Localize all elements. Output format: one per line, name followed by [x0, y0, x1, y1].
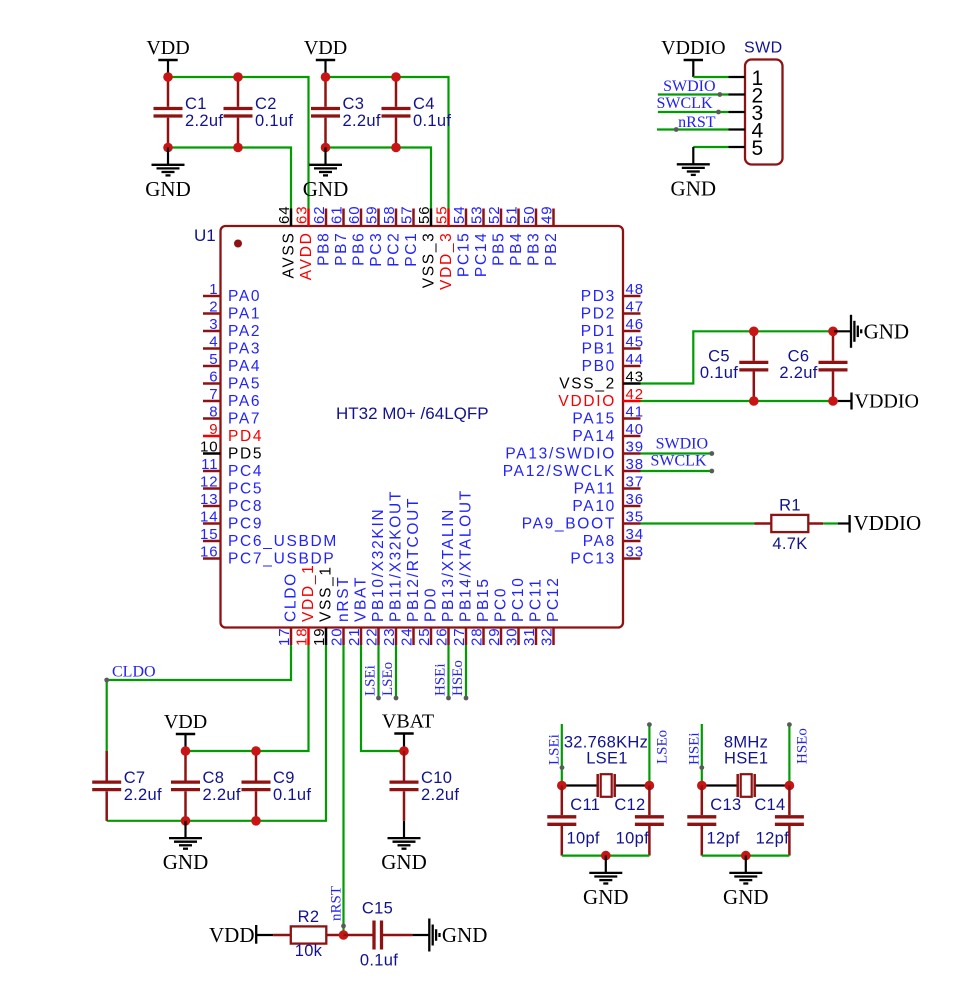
pin 17 CLDO (bottom): [276, 572, 300, 646]
pin 58 PC2 (top): [381, 206, 403, 267]
node net anchor CLDO: [104, 678, 109, 683]
pin 52 PB5 (top): [486, 206, 508, 266]
svg-text:PC15: PC15: [456, 232, 473, 278]
pin 55 VDD_3 (top): [434, 206, 456, 290]
pin 7 PA6 (left): [203, 386, 261, 410]
svg-text:57: 57: [399, 206, 416, 225]
svg-text:10k: 10k: [295, 942, 323, 960]
svg-text:61: 61: [329, 206, 346, 225]
svg-text:37: 37: [626, 474, 645, 491]
svg-text:10: 10: [200, 439, 219, 456]
power flag VDD (bottom): [164, 711, 207, 751]
svg-text:0.1uf: 0.1uf: [360, 952, 398, 970]
svg-text:PC0: PC0: [493, 587, 510, 622]
svg-text:CLDO: CLDO: [112, 663, 156, 680]
svg-text:C9: C9: [273, 769, 295, 787]
pin 27 PB14/XTALOUT (bottom): [451, 489, 475, 646]
node nRST junction: [339, 930, 349, 940]
capacitor C1: [154, 77, 224, 148]
node net anchor HSEi (crystal): [699, 765, 704, 770]
svg-text:19: 19: [311, 628, 328, 647]
svg-text:C4: C4: [413, 95, 435, 113]
node GND-C2: [233, 143, 243, 153]
svg-text:VDD_3: VDD_3: [438, 232, 455, 290]
capacitor C14: [775, 786, 804, 856]
capacitor C10: [390, 751, 460, 821]
svg-text:11: 11: [201, 456, 218, 473]
capacitor C8: [171, 751, 241, 821]
svg-text:PB12/RTCOUT: PB12/RTCOUT: [405, 497, 422, 622]
svg-text:4.7K: 4.7K: [772, 535, 807, 553]
pin 44 PB0 (right): [582, 351, 644, 375]
svg-text:PB0: PB0: [582, 358, 616, 375]
svg-text:PC8: PC8: [228, 498, 263, 515]
svg-text:41: 41: [626, 404, 645, 421]
svg-text:5: 5: [752, 137, 764, 160]
pin 63 AVDD (top): [294, 206, 316, 281]
svg-text:LSEo: LSEo: [380, 662, 396, 696]
svg-text:51: 51: [504, 206, 521, 225]
svg-text:GND: GND: [442, 923, 488, 947]
svg-text:62: 62: [311, 206, 328, 225]
ground flag GND (right): [834, 315, 909, 348]
pin 22 PB10/X32KIN (bottom): [364, 508, 388, 646]
svg-text:20: 20: [329, 628, 346, 647]
svg-text:21: 21: [346, 628, 363, 647]
capacitor C5: [739, 331, 768, 401]
svg-text:PA9_BOOT: PA9_BOOT: [522, 516, 616, 533]
svg-text:PA14: PA14: [572, 428, 616, 445]
pin 20 nRST (bottom): [329, 576, 353, 646]
resistor R2 10k: [273, 934, 343, 937]
capacitor C9: [242, 751, 312, 821]
svg-text:R1: R1: [779, 497, 801, 515]
node LSE gnd: [601, 851, 611, 861]
svg-text:3: 3: [209, 316, 218, 333]
pin 3 PA2 (left): [203, 316, 261, 340]
node net anchor SWDIO: [717, 92, 722, 97]
svg-text:C1: C1: [185, 95, 207, 113]
svg-text:PC12: PC12: [545, 576, 562, 622]
power flag VDDIO (right rail): [838, 391, 919, 413]
svg-text:24: 24: [399, 628, 416, 647]
svg-text:PA1: PA1: [228, 306, 261, 323]
power flag VDDIO (R1): [838, 511, 921, 535]
svg-text:PB14/XTALOUT: PB14/XTALOUT: [458, 489, 475, 622]
pin 53 PC14 (top): [469, 206, 491, 278]
svg-text:PB4: PB4: [508, 232, 525, 266]
svg-text:45: 45: [626, 334, 645, 351]
svg-text:AVSS: AVSS: [281, 232, 298, 279]
svg-text:HSEo: HSEo: [795, 728, 811, 764]
node C5 top: [749, 327, 759, 337]
svg-text:PB8: PB8: [316, 232, 333, 266]
svg-text:34: 34: [626, 526, 645, 543]
pin 4 PA3 (left): [203, 334, 261, 358]
svg-text:GND: GND: [381, 850, 427, 874]
wire R1 to VDDIO flag: [823, 522, 838, 524]
pin 36 PA10 (right): [572, 491, 644, 515]
svg-text:PD0: PD0: [423, 587, 440, 622]
wire pin 35 PA9_BOOT to R1: [641, 522, 755, 524]
svg-text:PB5: PB5: [491, 232, 508, 266]
node net anchor LSEo (crystal): [647, 722, 652, 727]
pin 2 PA1 (left): [203, 299, 261, 323]
svg-text:GND: GND: [864, 320, 910, 344]
svg-text:PC11: PC11: [528, 578, 545, 622]
node VDD-C8: [181, 746, 191, 756]
node C5 bottom: [749, 396, 759, 406]
svg-text:17: 17: [276, 628, 293, 647]
pin 16 PC7_USBDP (left): [200, 544, 335, 568]
node net anchor LSEi (crystal): [560, 765, 565, 770]
pin 35 PA9_BOOT (right): [522, 509, 644, 533]
node net anchor nRST 2: [341, 924, 346, 929]
svg-text:nRST: nRST: [335, 576, 352, 622]
svg-text:56: 56: [416, 206, 433, 225]
svg-text:5: 5: [209, 351, 218, 368]
svg-text:2.2uf: 2.2uf: [124, 786, 162, 804]
node net anchor nRST: [674, 127, 679, 132]
pin 13 PC8 (left): [200, 491, 263, 515]
svg-text:PB1: PB1: [582, 341, 616, 358]
svg-text:25: 25: [416, 628, 433, 647]
pin 61 PB7 (top): [329, 206, 351, 266]
node VDD-C9: [251, 746, 261, 756]
svg-text:VDDIO: VDDIO: [855, 391, 919, 413]
pin 21 VBAT (bottom): [346, 576, 370, 646]
svg-text:VDDIO: VDDIO: [661, 37, 725, 59]
capacitor C2: [224, 77, 294, 148]
wire HSEi to C13: [701, 724, 703, 786]
svg-text:15: 15: [200, 526, 219, 543]
svg-text:C7: C7: [124, 769, 146, 787]
wire nRST from pin 20 to R2 node: [342, 645, 344, 935]
svg-text:PA8: PA8: [583, 533, 616, 550]
node VDD-C1: [163, 72, 173, 82]
svg-text:PC10: PC10: [510, 576, 527, 622]
svg-text:C15: C15: [362, 900, 393, 918]
svg-text:PC2: PC2: [386, 232, 403, 267]
pin 9 PD4 (left): [203, 421, 263, 445]
svg-text:SWDIO: SWDIO: [656, 436, 708, 453]
node HSE right: [785, 781, 795, 791]
pin 59 PC3 (top): [364, 206, 386, 267]
wire HSEo from IC pin: [465, 645, 467, 698]
svg-text:10pf: 10pf: [616, 829, 649, 847]
node VDD-C3: [321, 72, 331, 82]
pin 12 PC5 (left): [200, 474, 263, 498]
svg-text:0.1uf: 0.1uf: [700, 364, 738, 382]
svg-text:46: 46: [626, 316, 645, 333]
pin 19 VSS_1 (bottom): [311, 565, 335, 646]
svg-text:59: 59: [364, 206, 381, 225]
wire LSEi from IC pin: [377, 645, 379, 698]
svg-text:2.2uf: 2.2uf: [185, 112, 223, 130]
pin 56 VSS_3 (top): [416, 206, 438, 289]
svg-text:12pf: 12pf: [756, 829, 789, 847]
svg-text:18: 18: [294, 628, 311, 647]
pin 57 PC1 (top): [399, 206, 421, 267]
power flag VDD (block 2): [304, 37, 347, 77]
svg-text:55: 55: [434, 206, 451, 225]
ground GND (HSE): [723, 856, 769, 909]
svg-text:53: 53: [469, 206, 486, 225]
power flag VDDIO (SWD): [661, 37, 725, 77]
svg-text:C8: C8: [203, 769, 225, 787]
pin 37 PA11 (right): [574, 474, 644, 498]
svg-text:6: 6: [209, 369, 218, 386]
svg-text:VSS_1: VSS_1: [318, 565, 335, 622]
pin 11 PC4 (left): [201, 456, 263, 480]
pin 5 PA4 (left): [203, 351, 261, 375]
svg-text:50: 50: [521, 206, 538, 225]
svg-text:LSEi: LSEi: [547, 734, 563, 765]
wire LSEo from IC pin: [395, 645, 397, 698]
svg-text:PB6: PB6: [351, 232, 368, 266]
pin 32 PC12 (bottom): [539, 576, 563, 646]
svg-text:PB15: PB15: [475, 577, 492, 622]
capacitor C6: [819, 331, 848, 401]
pin 39 PA13/SWDIO (right): [505, 439, 644, 463]
capacitor C11: [547, 786, 576, 856]
pin 10 PD5 (left): [200, 439, 263, 463]
svg-text:2.2uf: 2.2uf: [421, 786, 459, 804]
pin 46 PD1 (right): [581, 316, 644, 340]
wire SWD pin3 SWCLK: [658, 111, 729, 113]
svg-text:60: 60: [346, 206, 363, 225]
svg-text:7: 7: [209, 386, 218, 403]
svg-text:10pf: 10pf: [567, 829, 600, 847]
node LSE right: [645, 781, 655, 791]
svg-text:R2: R2: [298, 908, 320, 926]
svg-text:GND: GND: [303, 177, 349, 201]
svg-text:PA10: PA10: [572, 498, 616, 515]
node GND-C8: [181, 816, 191, 826]
svg-text:27: 27: [451, 628, 468, 647]
node GND-C1: [163, 143, 173, 153]
svg-text:PC1: PC1: [403, 232, 420, 267]
svg-text:HSEi: HSEi: [433, 663, 449, 696]
svg-text:GND: GND: [723, 885, 769, 909]
svg-text:GND: GND: [583, 885, 629, 909]
svg-text:22: 22: [364, 628, 381, 647]
svg-text:PA15: PA15: [572, 411, 616, 428]
node net anchor SWDIO 2: [709, 451, 714, 456]
svg-text:23: 23: [381, 628, 398, 647]
node HSE gnd: [741, 851, 751, 861]
node LSE left: [557, 781, 567, 791]
wire GND rail block2 to pin 56: [326, 148, 432, 210]
pin 8 PA7 (left): [203, 404, 261, 428]
svg-text:PD4: PD4: [228, 428, 263, 445]
pin 47 PD2 (right): [581, 299, 644, 323]
svg-text:PC6_USBDM: PC6_USBDM: [228, 533, 338, 550]
wire VDD rail block2 to pin 55: [326, 77, 449, 209]
svg-text:8: 8: [209, 404, 218, 421]
svg-text:PC3: PC3: [368, 232, 385, 267]
pin 25 PD0 (bottom): [416, 587, 440, 646]
svg-text:PA3: PA3: [228, 341, 261, 358]
svg-text:PC4: PC4: [228, 463, 263, 480]
svg-text:40: 40: [626, 421, 645, 438]
ground GND (C10): [381, 821, 427, 874]
wire SWCLK from pin 38: [641, 470, 712, 472]
power flag VDD (R2 row): [209, 923, 273, 947]
svg-text:VDD_1: VDD_1: [300, 564, 317, 622]
power flag VBAT: [382, 711, 434, 751]
pin 1 PA0 (left): [203, 281, 261, 305]
node net anchor SWCLK: [716, 110, 721, 115]
svg-text:C3: C3: [343, 95, 365, 113]
svg-text:HSEi: HSEi: [687, 732, 703, 765]
svg-text:VDD: VDD: [209, 923, 255, 947]
svg-text:VDD: VDD: [146, 37, 189, 59]
svg-text:36: 36: [626, 491, 645, 508]
pin 64 AVSS (top): [276, 206, 298, 279]
svg-text:GND: GND: [671, 176, 717, 200]
svg-text:U1: U1: [194, 226, 216, 245]
capacitor C4: [382, 77, 452, 148]
wire HSEi from IC pin: [447, 645, 449, 698]
wire R2 node to C15: [344, 934, 374, 937]
svg-text:16: 16: [200, 544, 219, 561]
wire VDD rail block1 to pin 63: [168, 77, 309, 209]
pin 49 PB2 (top): [539, 206, 561, 266]
svg-text:LSEi: LSEi: [363, 665, 379, 696]
node net anchor HSEo (crystal): [787, 722, 792, 727]
svg-text:PB3: PB3: [526, 232, 543, 266]
pin 62 PB8 (top): [311, 206, 333, 266]
wire SWD pin5 to GND: [693, 146, 728, 148]
pin 29 PC0 (bottom): [486, 587, 510, 646]
node GND-C9: [251, 816, 261, 826]
node HSE left: [697, 781, 707, 791]
svg-text:C10: C10: [421, 769, 452, 787]
svg-text:0.1uf: 0.1uf: [255, 112, 293, 130]
svg-text:4: 4: [209, 334, 218, 351]
node VBAT-C10: [399, 746, 409, 756]
svg-text:47: 47: [626, 299, 645, 316]
svg-text:PC7_USBDP: PC7_USBDP: [228, 551, 335, 568]
svg-text:PD3: PD3: [581, 288, 616, 305]
capacitor C13: [687, 786, 716, 856]
capacitor C3: [311, 77, 381, 148]
capacitor C12: [635, 786, 664, 856]
svg-text:28: 28: [469, 628, 486, 647]
wire SWD pin4 nRST: [657, 128, 729, 130]
svg-text:VDDIO: VDDIO: [854, 511, 922, 535]
svg-text:C5: C5: [708, 348, 730, 366]
connector SWD: [729, 40, 783, 165]
pin 54 PC15 (top): [451, 206, 473, 278]
svg-text:C11: C11: [570, 796, 600, 814]
wire pin 19 VSS_1 to GND rail: [107, 645, 326, 821]
wire LSEi to C11: [561, 724, 563, 786]
node net anchor LSEo (IC): [394, 696, 399, 701]
pin 50 PB3 (top): [521, 206, 543, 266]
wire pin 42 VDDIO rail: [641, 400, 839, 402]
svg-text:VSS_3: VSS_3: [421, 232, 438, 289]
pin 40 PA14 (right): [572, 421, 644, 445]
ground flag GND (C15): [412, 919, 487, 952]
wire CLDO from pin 17 to C7: [107, 645, 291, 751]
svg-text:PA12/SWCLK: PA12/SWCLK: [503, 463, 616, 480]
svg-text:SWD: SWD: [744, 40, 783, 57]
svg-text:PD5: PD5: [228, 446, 263, 463]
wire GND rail block1 to pin 64: [168, 148, 291, 210]
svg-text:LSEo: LSEo: [655, 730, 671, 764]
svg-text:PB7: PB7: [333, 232, 350, 266]
capacitor C7: [92, 751, 162, 821]
pin 45 PB1 (right): [582, 334, 644, 358]
svg-text:PA6: PA6: [228, 393, 261, 410]
pin 38 PA12/SWCLK (right): [503, 456, 644, 480]
svg-text:33: 33: [626, 544, 645, 561]
svg-text:2.2uf: 2.2uf: [343, 112, 381, 130]
svg-text:29: 29: [486, 628, 503, 647]
svg-text:PA13/SWDIO: PA13/SWDIO: [505, 446, 616, 463]
svg-text:PB10/X32KIN: PB10/X32KIN: [370, 508, 387, 622]
svg-text:PB13/XTALIN: PB13/XTALIN: [440, 508, 457, 622]
svg-text:PB11/X32KOUT: PB11/X32KOUT: [388, 490, 405, 622]
svg-text:nRST: nRST: [329, 886, 345, 921]
svg-text:GND: GND: [163, 850, 209, 874]
svg-text:2.2uf: 2.2uf: [779, 364, 817, 382]
crystal HSE1 8MHz: [702, 734, 790, 798]
svg-text:VSS_2: VSS_2: [559, 376, 616, 393]
pin 23 PB11/X32KOUT (bottom): [381, 490, 405, 646]
svg-text:2: 2: [209, 299, 218, 316]
wire SWDIO from pin 39: [641, 452, 712, 454]
svg-text:GND: GND: [145, 177, 191, 201]
power flag VDD (block 1): [146, 37, 189, 77]
svg-text:PC14: PC14: [473, 232, 490, 278]
svg-text:PA0: PA0: [228, 288, 261, 305]
wire SWD pin2 SWDIO: [658, 93, 729, 95]
node net anchor HSEi (IC): [446, 696, 451, 701]
svg-text:9: 9: [209, 421, 218, 438]
svg-text:52: 52: [486, 206, 503, 225]
svg-text:PC5: PC5: [228, 481, 263, 498]
svg-text:49: 49: [539, 206, 556, 225]
svg-text:CLDO: CLDO: [283, 572, 300, 622]
svg-text:32: 32: [539, 628, 556, 647]
node C6 bottom: [828, 396, 838, 406]
pin 15 PC6_USBDM (left): [200, 526, 338, 550]
svg-text:SWCLK: SWCLK: [657, 95, 713, 112]
svg-text:48: 48: [626, 281, 645, 298]
svg-text:AVDD: AVDD: [298, 232, 315, 281]
svg-text:nRST: nRST: [678, 114, 716, 131]
ground GND (SWD): [671, 147, 717, 200]
svg-text:PB2: PB2: [543, 232, 560, 266]
svg-text:63: 63: [294, 206, 311, 225]
svg-text:PA5: PA5: [228, 376, 261, 393]
svg-text:PC9: PC9: [228, 516, 263, 533]
svg-text:SWCLK: SWCLK: [651, 453, 707, 470]
svg-text:PA2: PA2: [228, 323, 261, 340]
svg-text:PA7: PA7: [228, 411, 261, 428]
node net anchor HSEo (IC): [464, 696, 469, 701]
node C6 top: [828, 327, 838, 337]
svg-text:PA4: PA4: [228, 358, 261, 375]
ground GND (bottom left): [163, 821, 209, 874]
svg-text:C12: C12: [614, 796, 645, 814]
pin 33 PC13 (right): [570, 544, 644, 568]
crystal LSE1 32.768KHz: [562, 734, 650, 798]
wire LSE gnd rail: [562, 854, 650, 856]
